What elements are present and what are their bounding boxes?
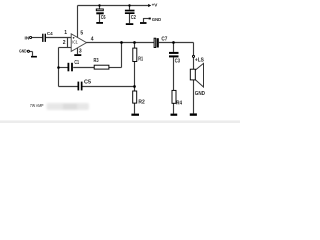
svg-text:C1: C1 — [74, 60, 79, 66]
svg-text:3: 3 — [79, 49, 82, 55]
svg-text:C6: C6 — [101, 15, 106, 21]
svg-text:+V: +V — [152, 2, 159, 8]
svg-text:R1: R1 — [138, 57, 143, 63]
svg-text:R4: R4 — [176, 101, 182, 107]
svg-text:GND: GND — [152, 17, 162, 22]
svg-text:R3: R3 — [94, 58, 99, 64]
svg-text:7W AMP: 7W AMP — [30, 103, 44, 108]
svg-text:GND: GND — [19, 49, 27, 54]
svg-text:1: 1 — [64, 30, 67, 36]
svg-text:C7: C7 — [161, 37, 167, 43]
svg-text:C3: C3 — [175, 59, 180, 65]
svg-text:IC1: IC1 — [72, 39, 78, 44]
svg-text:C4: C4 — [47, 31, 53, 37]
svg-text:+LS: +LS — [195, 58, 205, 64]
svg-text:4: 4 — [91, 37, 94, 43]
svg-text:C2: C2 — [131, 15, 136, 21]
svg-text:GND: GND — [195, 91, 205, 97]
svg-text:5: 5 — [80, 30, 83, 36]
svg-text:2: 2 — [63, 40, 66, 46]
svg-text:IN: IN — [25, 36, 30, 41]
svg-text:R2: R2 — [138, 100, 145, 106]
svg-text:C5: C5 — [84, 80, 91, 86]
